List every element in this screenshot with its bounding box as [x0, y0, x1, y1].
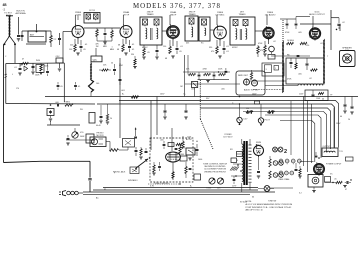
trimmer capacitor T1a: [86, 14, 91, 20]
IF transformer T4 can: [230, 17, 255, 45]
resistor R17: [204, 73, 211, 75]
phono jack box: [130, 167, 139, 174]
label ps parts: [196, 141, 202, 161]
label below T2: [147, 52, 150, 54]
dashed enclosure tone switch: [150, 138, 193, 182]
svg-text:1000: 1000: [198, 159, 202, 161]
diode circle D2: [252, 80, 258, 86]
svg-text:12: 12: [93, 61, 95, 63]
label speckle bottom: [114, 173, 333, 199]
svg-text:.005: .005: [160, 140, 164, 142]
svg-text:3: 3: [266, 69, 267, 71]
wire border cap to cord: [89, 181, 91, 192]
oscillator box: [91, 56, 102, 62]
capacitor C4: [19, 63, 22, 70]
capacitor C10 below T2: [155, 45, 158, 59]
line capacitor box: [47, 109, 54, 116]
svg-text:68: 68: [118, 45, 120, 47]
socket circle P2: [258, 104, 270, 126]
label speckle left: [5, 56, 83, 111]
svg-text:1: 1: [275, 68, 276, 70]
label osc parts: [96, 63, 113, 86]
capacitor C18: [213, 72, 216, 80]
IF transformer T1a label: [89, 10, 96, 12]
label C6: [103, 44, 108, 48]
svg-text:POINT INDICATED TO B- . LINE V: POINT INDICATED TO B- . LINE VOLTAGE 117…: [246, 206, 292, 209]
page mark top-left: [3, 3, 8, 12]
label R1 value: [54, 39, 58, 41]
svg-text:.05: .05: [78, 86, 81, 88]
pilot circle A: [273, 147, 278, 152]
capacitor C8 osc: [119, 63, 122, 85]
below-rail label: [96, 118, 112, 127]
svg-text:47: 47: [345, 189, 347, 191]
svg-text:1ST IF: 1ST IF: [123, 15, 130, 17]
svg-text:40-40: 40-40: [96, 125, 101, 127]
label below V3: [165, 51, 182, 60]
capacitor C16 in box: [306, 58, 309, 70]
wire avc rail: [280, 17, 310, 20]
svg-text:20: 20: [110, 118, 112, 120]
svg-text:1 MEG: 1 MEG: [64, 102, 70, 104]
volume control label: [244, 89, 258, 92]
label speckle can bottoms: [142, 43, 238, 50]
svg-text:.05: .05: [60, 86, 63, 88]
svg-text:7: 7: [167, 36, 168, 38]
capacitor C33 hang: [350, 97, 353, 115]
svg-text:OSC: OSC: [119, 65, 124, 67]
label det row: [180, 69, 225, 96]
capacitor C27 rect: [257, 171, 260, 178]
wire vol rail: [66, 139, 95, 141]
wire V2 top: [122, 15, 124, 25]
svg-text:RATIO DET: RATIO DET: [238, 74, 249, 77]
ground G1: [31, 72, 34, 74]
resistor R36 on rail: [132, 96, 139, 99]
svg-text:IN34: IN34: [36, 60, 40, 62]
svg-text:AUDIO TO PIN 1: AUDIO TO PIN 1: [244, 89, 258, 92]
heater chain row 1: [279, 159, 301, 164]
T4 primary coil: [236, 29, 237, 40]
svg-text:20: 20: [348, 119, 350, 121]
svg-text:12AV6: 12AV6: [217, 11, 224, 14]
resistor R23 phono: [110, 149, 119, 152]
svg-text:100: 100: [96, 83, 99, 85]
label below V2: [117, 49, 134, 51]
resistor R12 right of T4: [257, 45, 260, 57]
ground G2: [39, 73, 42, 75]
capacitor C3: [32, 63, 35, 71]
svg-text:455: 455: [186, 43, 189, 45]
wire left border vertical: [3, 44, 5, 162]
svg-text:.01: .01: [226, 46, 229, 48]
resistor R39 h: [268, 110, 275, 114]
ground G9: [49, 116, 52, 122]
label phono motor: [96, 133, 104, 137]
label ps: [186, 137, 193, 141]
svg-text:150: 150: [246, 108, 249, 110]
resistor R35 in box: [310, 69, 317, 71]
wire bottom border: [4, 161, 91, 162]
wire rail 3: [119, 101, 339, 148]
svg-text:.05: .05: [83, 49, 86, 51]
speaker cabinet box: [308, 175, 323, 188]
filter coil horizontal: [298, 84, 323, 86]
ps left dots: [231, 164, 242, 177]
label V9: [326, 164, 342, 166]
tube V6: [309, 27, 320, 41]
resistor R20 h: [246, 108, 253, 114]
svg-text:40: 40: [322, 99, 324, 101]
svg-text:470: 470: [211, 51, 214, 53]
heater chain row 2: [279, 171, 294, 175]
oscillator coil curl: [89, 80, 94, 92]
resistor R37 left in box: [152, 162, 155, 175]
br resistor: [332, 181, 342, 183]
capacitor C17: [198, 72, 201, 80]
svg-text:455KC: 455KC: [142, 47, 148, 49]
wire V4 down: [219, 39, 221, 46]
detector enclosure: [236, 71, 265, 95]
wire V1 plate up: [75, 15, 78, 25]
wire bus 2: [93, 189, 258, 191]
tube V3: [167, 24, 180, 40]
resistor R31 out: [298, 166, 301, 178]
resistor R26 below V7: [172, 172, 174, 179]
wire osc bottom: [90, 92, 92, 96]
capacitor C6: [104, 28, 107, 41]
label V5 type: [265, 11, 276, 17]
trimmer capacitor T2b: [154, 19, 159, 26]
capacitor C30: [295, 19, 298, 29]
svg-text:470K: 470K: [285, 32, 290, 34]
wire v out1: [333, 108, 335, 149]
capacitor C31: [297, 56, 300, 57]
svg-text:.05: .05: [147, 52, 150, 54]
svg-text:B+: B+: [184, 94, 186, 96]
svg-text:AC-DC: AC-DC: [186, 138, 193, 141]
svg-text:.006: .006: [55, 102, 59, 104]
svg-text:330: 330: [131, 54, 134, 56]
svg-text:TONE SW: TONE SW: [268, 201, 276, 203]
wire v top right: [331, 10, 339, 50]
tube V4: [214, 25, 227, 41]
T5 primary coil: [242, 144, 243, 182]
br label: [334, 179, 347, 192]
resistor R33 h: [300, 42, 307, 44]
wire rail 6: [265, 115, 321, 158]
capacitor C39 on rail: [46, 63, 49, 76]
wire shielded audio: [253, 89, 283, 91]
resistor R16: [188, 72, 196, 76]
IF transformer T3 can: [185, 16, 198, 41]
T3 coil: [192, 27, 193, 37]
br wire link: [325, 183, 347, 188]
svg-text:117V: 117V: [232, 186, 237, 188]
resistor R24 phono: [139, 147, 142, 159]
loop box on rail: [36, 65, 44, 73]
label C14: [342, 22, 345, 24]
glyph 2 bold: [284, 149, 287, 155]
ps left small box B: [231, 158, 237, 163]
terminal box small: [346, 157, 354, 161]
svg-text:170: 170: [16, 88, 19, 90]
svg-text:40: 40: [196, 141, 198, 143]
label R5: [95, 44, 99, 48]
svg-text:455KC: 455KC: [232, 47, 238, 49]
ground G5: [124, 53, 127, 55]
svg-text:NOTE:: NOTE:: [246, 201, 253, 203]
svg-text:.01: .01: [180, 46, 183, 48]
label right cluster: [336, 116, 350, 125]
wire rect down: [258, 156, 260, 171]
phono motor box: [90, 137, 106, 147]
wire T3 link: [210, 29, 214, 31]
wire V3 down: [172, 39, 174, 47]
svg-text:.05: .05: [132, 49, 135, 51]
svg-text:-2: -2: [3, 8, 6, 12]
resistor R7 osc: [113, 64, 116, 75]
antenna coupling box T1: [28, 24, 46, 42]
svg-text:1: 1: [263, 36, 264, 38]
resistor R2: [22, 62, 29, 64]
parts right of V7: [185, 162, 201, 180]
svg-text:12AV6: 12AV6: [267, 11, 274, 14]
ground G8: [206, 68, 227, 83]
svg-text:.05: .05: [85, 44, 88, 46]
trimmer capacitor T2a: [143, 19, 148, 26]
rail component: [255, 101, 260, 104]
wire inner left vertical: [5, 44, 16, 103]
capacitor C7 osc: [99, 69, 111, 71]
small box right cab: [325, 177, 331, 183]
capacitor C2: [58, 33, 61, 45]
svg-text:S1: S1: [104, 189, 106, 191]
wire mid v1: [150, 101, 152, 151]
ground G6: [171, 56, 174, 58]
capacitor C19 hang: [163, 104, 166, 119]
choke coil left bar: [282, 41, 284, 93]
wire V1 to grid cluster: [63, 32, 72, 64]
label grid cluster: [14, 59, 49, 77]
tube V8: [254, 144, 264, 157]
label output trans: [323, 146, 332, 148]
resistor R5: [96, 28, 99, 41]
label box parts: [287, 74, 312, 81]
svg-text:470K: 470K: [258, 43, 263, 45]
label V6 type: [309, 12, 325, 17]
svg-text:.005: .005: [298, 74, 302, 76]
label 7 1-2: [339, 151, 344, 153]
svg-text:10 MEG: 10 MEG: [287, 40, 294, 42]
svg-text:60: 60: [252, 197, 254, 199]
wire antenna fork: [5, 36, 16, 44]
capacitor C13 below V5: [269, 46, 275, 54]
label TO ANT: [4, 13, 12, 18]
svg-text:12BA6: 12BA6: [123, 11, 130, 14]
ps small box 2: [180, 154, 187, 161]
capacitor C24 phono: [145, 148, 148, 153]
antenna loopstick L1: [6, 15, 13, 37]
component small box left: [56, 58, 63, 71]
tube V5: [263, 26, 274, 40]
output transformer box: [322, 148, 338, 157]
capacitor C21: [57, 104, 58, 107]
oscillator coil L2: [90, 63, 92, 80]
component right of vol: [86, 134, 95, 143]
label V8: [256, 142, 262, 147]
resistor ladder A: [269, 156, 284, 167]
label 170: [16, 88, 19, 90]
audio network box: [286, 58, 324, 84]
volume box det: [192, 82, 198, 97]
wire T1 row: [22, 30, 51, 32]
wire T5 top: [242, 139, 250, 145]
capacitor C5 below V1: [80, 40, 83, 52]
trimmer capacitor T4b: [243, 20, 248, 27]
fuse circle: [258, 186, 274, 192]
switch SW1 phono-radio: [135, 157, 150, 169]
capacitor C38 above V9: [300, 152, 320, 162]
svg-text:100K: 100K: [35, 75, 40, 77]
label speaker: [342, 47, 352, 53]
wire rail 5: [243, 112, 327, 153]
label antenna box: [30, 34, 35, 37]
capacitor C9 below V2: [128, 40, 131, 52]
resistor R21: [65, 104, 73, 107]
socket circle P1: [237, 96, 248, 125]
svg-text:VIEWED FROM FRONT: VIEWED FROM FRONT: [204, 171, 227, 173]
label tone control bottom: [154, 183, 169, 185]
svg-text:500K: 500K: [80, 136, 85, 138]
svg-text:1: 1: [309, 37, 310, 39]
T2 primary coil: [146, 28, 147, 39]
label ps left: [230, 149, 238, 162]
node dot rail: [50, 104, 52, 106]
svg-text:47: 47: [22, 59, 24, 61]
svg-text:.001: .001: [121, 90, 125, 92]
wire converter top rail: [6, 63, 65, 102]
svg-text:.05: .05: [179, 51, 182, 53]
wire mid-left rail: [6, 104, 95, 126]
svg-text:.01: .01: [14, 67, 17, 69]
wire rail 4: [200, 108, 331, 149]
wire V5 down: [268, 39, 270, 44]
wire under ant box: [26, 43, 46, 45]
tube V7 first audio: [166, 152, 181, 162]
svg-text:TRANS: TRANS: [146, 13, 154, 16]
svg-text:12BA6: 12BA6: [170, 11, 177, 14]
trimmer capacitor T3a: [189, 18, 194, 25]
tone pot R28: [209, 178, 215, 184]
label V4 type: [216, 11, 225, 17]
node dot antenna right: [14, 43, 16, 45]
IF transformer T2 label: [146, 12, 154, 17]
resistor R6: [111, 28, 114, 41]
label bus: [96, 189, 106, 200]
br capacitor: [347, 179, 352, 184]
label R21: [64, 102, 70, 104]
svg-text:150: 150: [163, 46, 166, 48]
socket detail box: [262, 63, 284, 76]
trimmer capacitor T1b: [94, 14, 99, 20]
wire det row: [183, 72, 240, 84]
svg-text:1ST IF: 1ST IF: [89, 10, 96, 12]
wire top right rail: [300, 23, 331, 25]
capacitor C35 left in box: [158, 162, 161, 171]
note text block: [246, 201, 293, 212]
power plug: [59, 191, 83, 196]
wire phono: [106, 142, 128, 151]
capacitor C14 top right: [336, 18, 341, 31]
ps left cap: [233, 176, 236, 184]
ps left small box A: [237, 152, 243, 157]
resistor R38 det right: [250, 70, 252, 80]
resistor R10 below V3: [169, 40, 172, 54]
cluster above V7: [160, 128, 186, 151]
svg-text:MEG: MEG: [110, 49, 115, 51]
wire rail 7: [280, 121, 315, 163]
capacitor C32 hang: [343, 97, 346, 114]
svg-text:150: 150: [69, 49, 72, 51]
label speckle right mid: [268, 55, 329, 62]
wire mid v3: [119, 58, 121, 138]
trimmer capacitor T4a: [233, 20, 238, 27]
wire T5 bottom: [242, 183, 250, 192]
wire V2 down: [125, 38, 127, 45]
speaker cone: [343, 54, 352, 63]
choke coil right bar: [323, 39, 325, 84]
svg-text:MFD: MFD: [103, 46, 108, 48]
wire T4 out: [255, 30, 264, 32]
ps hatch bundle: [230, 167, 239, 171]
svg-text:100V: 100V: [252, 94, 257, 96]
avc dashed line: [282, 20, 284, 42]
wire bottom V1-V2: [97, 41, 112, 44]
label between: [285, 32, 302, 42]
svg-text:7: 7: [120, 36, 121, 38]
svg-text:.05: .05: [132, 44, 135, 46]
capacitor C1: [21, 31, 24, 41]
svg-text:470K: 470K: [203, 69, 208, 71]
wire T2 out: [162, 30, 167, 32]
wire rail 2: [97, 104, 335, 148]
T4 secondary coil: [246, 29, 247, 40]
small box below V5: [268, 55, 275, 60]
IF transformer T1a can: [84, 13, 100, 24]
capacitor C26 ps: [196, 144, 199, 156]
svg-text:330: 330: [209, 47, 212, 49]
label bottom left small: [268, 201, 276, 203]
wire rail V1-V2: [84, 27, 120, 29]
label V1 type: [75, 12, 82, 17]
IF transformer T3b can: [199, 17, 210, 41]
tube V2: [120, 24, 132, 39]
wire V5 top: [266, 15, 268, 25]
label V2 type: [123, 11, 130, 17]
svg-text:470K: 470K: [287, 79, 292, 81]
wire to br cluster: [270, 187, 293, 189]
capacitor C11 below V3: [176, 41, 179, 54]
svg-text:MODELS 376, 377, 378: MODELS 376, 377, 378: [133, 3, 221, 10]
wire mid v2: [156, 97, 158, 136]
svg-text:POWER OUTPUT: POWER OUTPUT: [326, 164, 342, 166]
svg-text:AND UP TO NO. 10: AND UP TO NO. 10: [246, 209, 263, 212]
capacitor C22: [66, 135, 69, 145]
capacitor C12 below V4: [223, 41, 226, 54]
resistor R3: [40, 63, 42, 71]
selenium rectifier box: [186, 148, 195, 155]
